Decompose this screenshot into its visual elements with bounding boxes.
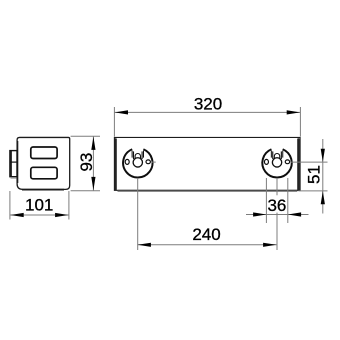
svg-text:101: 101 (25, 196, 53, 215)
svg-text:320: 320 (194, 95, 222, 114)
svg-text:93: 93 (77, 153, 96, 172)
svg-text:240: 240 (192, 225, 220, 244)
svg-text:36: 36 (267, 196, 286, 215)
svg-text:51: 51 (304, 165, 323, 184)
